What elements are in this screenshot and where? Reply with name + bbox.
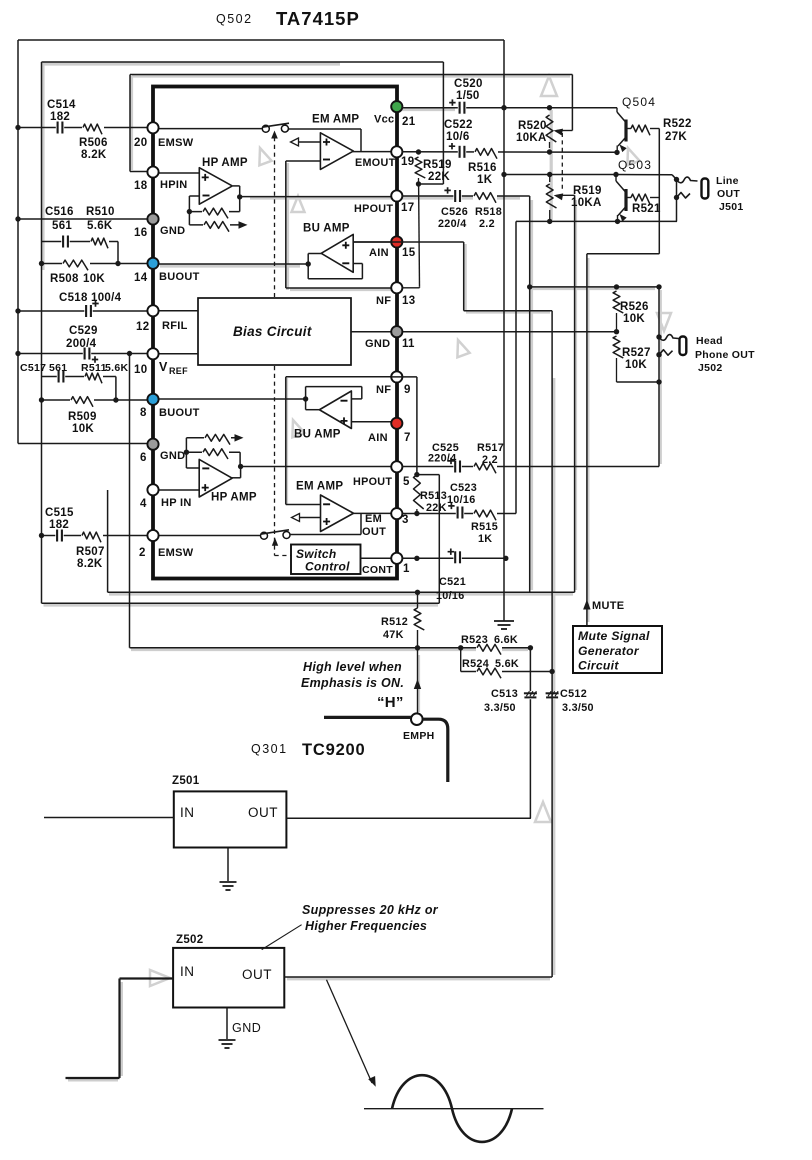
resistor HP-A feedback [203, 208, 228, 218]
pin 21 Vcc [391, 101, 402, 112]
svg-text:C523: C523 [450, 482, 477, 494]
wire BU output stub [308, 253, 321, 255]
wire pin15 AIN line [353, 241, 464, 243]
svg-text:EM: EM [365, 513, 382, 525]
junction jack feed [656, 284, 661, 289]
svg-text:10KA: 10KA [516, 132, 547, 144]
wire EM AMP output to pin19 [353, 151, 391, 153]
wire pin3 EM OUT line [402, 513, 516, 515]
pin 12 RFIL [147, 305, 158, 316]
wire pin14 line [42, 263, 148, 265]
junction R519 foot [416, 181, 421, 186]
svg-text:2: 2 [139, 547, 146, 559]
svg-text:GND: GND [232, 1021, 261, 1035]
resistor HP-B gnd-ref [205, 434, 230, 444]
svg-text:5.6K: 5.6K [105, 362, 128, 374]
svg-text:11: 11 [402, 338, 415, 350]
svg-text:10/16: 10/16 [436, 590, 465, 602]
junction R512 top [415, 590, 420, 595]
junction R524 right [549, 669, 554, 674]
resistor R511 [85, 373, 102, 383]
wire Q503 collector line [504, 174, 616, 176]
svg-text:18: 18 [134, 180, 148, 192]
svg-text:10/6: 10/6 [446, 131, 470, 143]
wire J501 ring drop [676, 180, 678, 222]
wire pin2 line [42, 535, 148, 537]
wire feedback riser [239, 197, 241, 212]
pin 2 EMSW [147, 530, 158, 541]
wire net-B bottom horizontal [42, 602, 440, 604]
svg-text:Q502: Q502 [216, 12, 253, 26]
svg-text:BUOUT: BUOUT [159, 271, 200, 283]
wire R519 foot to pin13 [418, 184, 421, 287]
svg-text:6: 6 [140, 452, 147, 464]
svg-text:CONT: CONT [362, 564, 393, 576]
resistor R516 [475, 149, 497, 159]
capacitor C514 [58, 122, 63, 134]
svg-text:10KA: 10KA [571, 197, 602, 209]
wire pointer to Z502 [262, 925, 302, 950]
svg-text:Generator: Generator [578, 644, 640, 658]
wire AIN step across [464, 310, 552, 312]
svg-text:GND: GND [160, 450, 185, 462]
wire pin20 to switch [158, 128, 262, 130]
svg-text:10K: 10K [623, 313, 645, 325]
resistor R506 [83, 124, 102, 134]
wire gnd-ref line lower [186, 437, 236, 439]
svg-text:182: 182 [49, 519, 69, 531]
pin 16 GND [147, 213, 158, 224]
svg-text:Phone OUT: Phone OUT [695, 349, 755, 361]
capacitor C529 [85, 348, 99, 363]
svg-text:EMSW: EMSW [158, 137, 194, 149]
svg-text:100/4: 100/4 [91, 292, 122, 304]
svg-text:C520: C520 [454, 78, 483, 90]
svg-text:17: 17 [401, 202, 414, 214]
junction BUOUT node [306, 261, 311, 266]
svg-text:R527: R527 [622, 347, 651, 359]
wire under-IC rail y592 [108, 591, 575, 593]
svg-text:HPIN: HPIN [160, 179, 187, 191]
wire HP- drop [188, 196, 190, 212]
svg-text:22K: 22K [426, 502, 447, 514]
svg-text:Circuit: Circuit [578, 659, 619, 673]
sine curve [392, 1075, 512, 1142]
svg-text:OUT: OUT [717, 188, 740, 200]
transistor Q503 base bar [624, 189, 627, 211]
svg-text:C529: C529 [69, 325, 98, 337]
wire volume feed lower [551, 691, 553, 978]
svg-text:Q503: Q503 [618, 158, 652, 172]
wire pin3 riser x516 [515, 221, 517, 513]
junction on y648 rail [415, 645, 420, 650]
capacitor C515 [57, 530, 62, 542]
wire BU-B output drop [305, 399, 307, 410]
wire EMPH riser [417, 630, 419, 714]
pin 4 HP IN [147, 484, 158, 495]
svg-text:EMSW: EMSW [158, 547, 194, 559]
svg-text:1/50: 1/50 [456, 90, 480, 102]
junction Q503 emitter on mute line [615, 219, 620, 224]
jack J502 tip contact [659, 335, 679, 341]
junction Vcc R520 [547, 105, 552, 110]
wire net-B right drop to R519 foot [442, 62, 444, 184]
svg-text:R509: R509 [68, 411, 97, 423]
wire stub to R513 node [417, 474, 439, 476]
pin 20 EMSW [147, 122, 158, 133]
resistor R510 [91, 238, 108, 248]
svg-text:J502: J502 [698, 362, 723, 374]
svg-text:Line: Line [716, 175, 739, 187]
arrowhead on dashed link lower [272, 538, 278, 546]
transistor Q504 collector [617, 112, 626, 123]
svg-text:7: 7 [404, 432, 411, 444]
junction R523 left [458, 645, 463, 650]
wire EM-B- from NF rail [286, 504, 321, 506]
wire pin18 to HP+ [158, 172, 199, 174]
svg-text:R519: R519 [573, 185, 602, 197]
capacitor C521 [448, 549, 460, 564]
svg-text:HP AMP: HP AMP [202, 157, 248, 169]
svg-text:8.2K: 8.2K [81, 149, 107, 161]
arrowhead to sine [368, 1076, 376, 1087]
potentiometer R519 10KA [546, 184, 556, 208]
wire BU- drop [361, 264, 363, 279]
jack J501 tip contact [677, 177, 698, 183]
wire NF rail vertical lower [285, 377, 287, 505]
svg-text:19: 19 [401, 156, 414, 168]
svg-text:15: 15 [402, 247, 416, 259]
regulator Z502 [173, 948, 284, 1008]
pin 7 AIN [391, 418, 402, 429]
op-amp U-EM-B lower [321, 495, 354, 532]
node EMPH [411, 713, 423, 725]
svg-text:C514: C514 [47, 99, 76, 111]
arrowhead MUTE [583, 600, 591, 610]
svg-text:R506: R506 [79, 137, 108, 149]
wire pin9 NF rail top [286, 376, 391, 378]
wire HP-B feedback [186, 451, 240, 453]
svg-text:10K: 10K [83, 273, 105, 285]
arrowhead Q503 emitter [620, 214, 627, 222]
junction R519-22K top [416, 149, 421, 154]
wire Z501 output to C513 [286, 817, 531, 819]
junction R520 bottom [547, 149, 552, 154]
svg-text:Higher Frequencies: Higher Frequencies [305, 919, 427, 933]
wire net-A right vertical to ground [503, 40, 505, 621]
svg-text:R526: R526 [620, 301, 649, 313]
wire R524 branch drop [460, 648, 462, 672]
svg-text:R512: R512 [381, 616, 408, 628]
wire BU-B- riser [361, 387, 363, 399]
wire Z502 gnd stub [226, 1008, 228, 1040]
op-amp U-HP-A upper [199, 168, 232, 205]
open arrow EM-B+ source [292, 514, 300, 522]
resistor R527 [613, 336, 623, 358]
transistor Q504 base bar [624, 120, 627, 142]
wire H bus right drop [423, 719, 448, 782]
svg-text:GND: GND [160, 225, 185, 237]
arrowhead gnd-ref lower [235, 434, 244, 442]
svg-text:NF: NF [376, 295, 391, 307]
wire HP-B- input [186, 467, 199, 469]
resistor R512 47K [414, 608, 424, 630]
op-amp U-EM-A upper [320, 133, 353, 170]
wire arrow to sine wave [327, 980, 373, 1083]
capacitor C517 [59, 371, 64, 383]
svg-text:1K: 1K [477, 174, 493, 186]
wire HP output stub [233, 185, 240, 187]
wire volume feed vertical [551, 311, 553, 691]
svg-text:14: 14 [134, 272, 148, 284]
svg-text:22K: 22K [428, 171, 450, 183]
wire BU-B feedback top [306, 386, 362, 388]
junction HPOUT-B node [238, 464, 243, 469]
svg-text:47K: 47K [383, 629, 404, 641]
wire C516 branch [42, 241, 119, 243]
svg-text:C512: C512 [560, 688, 587, 700]
wire to bias arrow resistor [188, 212, 190, 225]
svg-text:16: 16 [134, 227, 147, 239]
arrowhead R519 wiper [554, 193, 564, 200]
svg-text:HP IN: HP IN [161, 497, 192, 509]
wire AIN to BU+ [353, 241, 391, 243]
svg-text:R508: R508 [50, 273, 79, 285]
wire feedback drop [239, 452, 241, 466]
switch S2 lever [261, 530, 290, 534]
wire mute return horizontal [587, 253, 659, 255]
wire pin20 line [18, 127, 148, 129]
resistor R517 [474, 463, 496, 473]
resistor R507 [82, 532, 101, 542]
svg-text:182: 182 [50, 111, 70, 123]
wire net-C top [130, 74, 572, 76]
capacitor C523 [448, 503, 462, 519]
wire pin10 to bias [158, 353, 198, 355]
svg-text:10: 10 [134, 364, 147, 376]
jack J502 ring contact [659, 350, 673, 356]
wire BU-B feedback left [305, 387, 307, 399]
resistor R518 [474, 193, 496, 203]
wire EM-B output to pin3 [352, 512, 391, 514]
pin 1 CONT [391, 553, 402, 564]
wire net-C drop to R520 wiper [571, 75, 573, 131]
svg-text:HPOUT: HPOUT [353, 476, 392, 488]
pin 19 EMOUT [391, 146, 402, 157]
wire Vcc line [402, 107, 617, 109]
pin 9 NF [391, 371, 402, 382]
wire BU-B output stub [306, 409, 320, 411]
svg-text:AIN: AIN [369, 247, 389, 259]
arrowhead Q504 emitter [620, 145, 627, 153]
svg-text:C515: C515 [45, 507, 74, 519]
wire bottom-left riser [118, 979, 120, 1079]
wire C513 column [529, 648, 531, 819]
switch S1 lever [262, 123, 289, 127]
arrowhead gnd-ref upper [239, 221, 248, 229]
resistor HP-A gnd-ref [204, 222, 229, 232]
wire net-A top [18, 39, 504, 41]
wire pin17 line [402, 195, 530, 197]
svg-text:12: 12 [136, 321, 149, 333]
wire pin10 line [17, 353, 148, 355]
wire R527 bottom to jack [617, 381, 660, 383]
svg-text:6.6K: 6.6K [494, 634, 518, 646]
junction BUOUT-B node [303, 396, 308, 401]
svg-text:C513: C513 [491, 688, 518, 700]
op-amp U-BU-B lower [319, 391, 351, 429]
pin 18 HPIN [147, 166, 158, 177]
wire R519 wiper drop rail [574, 195, 576, 592]
svg-text:TC9200: TC9200 [302, 741, 366, 759]
svg-text:OUT: OUT [248, 805, 278, 820]
pin 8 BUOUT [147, 394, 158, 405]
wire pin17 drop rail [529, 196, 531, 592]
junction R523 right [528, 645, 533, 650]
arrowhead R520 wiper [554, 129, 564, 136]
svg-text:Head: Head [696, 335, 723, 347]
wire HP- input [189, 195, 199, 197]
wire switch control to pin1 [361, 557, 392, 559]
svg-text:5.6K: 5.6K [87, 220, 113, 232]
svg-text:220/4: 220/4 [428, 453, 457, 465]
svg-text:GND: GND [365, 338, 390, 350]
resistor R526 [613, 291, 623, 313]
svg-text:3.3/50: 3.3/50 [562, 702, 594, 714]
junction VREF rail [127, 351, 132, 356]
dashed link to switch control box [275, 555, 292, 557]
svg-text:R521: R521 [632, 203, 661, 215]
regulator Z501 [174, 791, 287, 847]
pin 13 NF [391, 282, 402, 293]
svg-text:HPOUT: HPOUT [354, 203, 393, 215]
wire pin4 to HP-B+ [158, 489, 199, 491]
wire C517 branch [42, 376, 116, 378]
svg-text:IN: IN [180, 964, 195, 979]
wire EMOUT line [402, 151, 617, 153]
svg-text:R515: R515 [471, 521, 498, 533]
wire net-A left vertical [17, 40, 19, 444]
svg-text:2.2: 2.2 [482, 454, 498, 466]
svg-text:Suppresses 20 kHz or: Suppresses 20 kHz or [302, 903, 439, 917]
capacitor C520 [449, 99, 464, 113]
svg-text:C517: C517 [20, 362, 46, 374]
pin 5 HPOUT [391, 461, 402, 472]
resistor R521 [631, 194, 650, 204]
wire net-B left vertical [41, 62, 43, 603]
svg-text:10K: 10K [72, 423, 94, 435]
wire riser to pin3 line [360, 513, 362, 534]
wire headphone feed [530, 286, 659, 288]
svg-text:R511: R511 [81, 362, 107, 374]
svg-text:J501: J501 [719, 201, 744, 213]
wire to gnd-ref resistor lower [185, 438, 187, 452]
svg-text:V: V [159, 360, 168, 374]
wire Z501 gnd stub [227, 848, 229, 882]
wire pin14 BUOUT internal [158, 263, 308, 265]
svg-text:Z502: Z502 [176, 934, 203, 946]
wire HP-B- riser [185, 452, 187, 468]
svg-text:C518: C518 [59, 292, 88, 304]
wire pin2 to switch lower [158, 535, 261, 537]
wire BU- stub [353, 263, 362, 265]
wire NF rail to pin13 [286, 287, 391, 289]
ground G1 [494, 621, 514, 629]
resistor R508 [63, 260, 88, 270]
svg-text:NF: NF [376, 384, 391, 396]
wire EM-B+ input [298, 517, 321, 519]
wire pin4 loop left riser [107, 490, 109, 592]
wire pin12 line [17, 310, 148, 312]
svg-text:R523: R523 [461, 634, 488, 646]
wire jog at R519 foot [419, 183, 444, 185]
svg-text:R516: R516 [468, 162, 497, 174]
wire pin8 line [42, 399, 148, 401]
svg-text:Mute Signal: Mute Signal [578, 629, 650, 643]
svg-text:R510: R510 [86, 206, 115, 218]
resistor HP-B feedback [203, 449, 228, 459]
wire BU feedback left [307, 264, 309, 279]
svg-text:C526: C526 [441, 206, 468, 218]
svg-text:27K: 27K [665, 131, 687, 143]
resistor R524 [477, 668, 501, 678]
transistor Q504 emitter [618, 137, 626, 146]
svg-text:10/16: 10/16 [447, 494, 476, 506]
svg-text:R524: R524 [462, 658, 489, 670]
mute signal generator circuit box [573, 626, 662, 673]
svg-text:5: 5 [403, 476, 410, 488]
wire pin1 CONT line [402, 557, 506, 559]
wire HP output drop [239, 186, 241, 197]
svg-text:MUTE: MUTE [592, 600, 624, 612]
wire Z502 output [284, 976, 552, 978]
svg-text:R507: R507 [76, 546, 105, 558]
wire VREF drop rail [129, 354, 131, 648]
svg-text:RFIL: RFIL [162, 320, 188, 332]
svg-text:Control: Control [305, 560, 350, 574]
svg-text:EM AMP: EM AMP [296, 481, 343, 493]
wire pin16 GND line [17, 218, 148, 220]
wire branch riser [117, 242, 119, 264]
pin 14 BUOUT [147, 258, 158, 269]
wire Q503 collector hook [615, 175, 617, 182]
wire BU output drop [307, 254, 309, 265]
svg-text:8: 8 [140, 407, 147, 419]
capacitor C516 [63, 236, 68, 248]
svg-text:Q301: Q301 [251, 742, 288, 756]
svg-text:Emphasis is ON.: Emphasis is ON. [301, 676, 404, 690]
wire pin8 BUOUT internal [158, 398, 306, 400]
svg-text:220/4: 220/4 [438, 218, 467, 230]
svg-text:8.2K: 8.2K [77, 558, 103, 570]
svg-text:HP AMP: HP AMP [211, 492, 257, 504]
svg-text:Bias Circuit: Bias Circuit [233, 324, 312, 339]
wire R512 top stub [417, 592, 419, 608]
potentiometer R520 10KA [546, 115, 556, 142]
svg-text:BUOUT: BUOUT [159, 407, 200, 419]
wire pin9 jog [391, 376, 417, 378]
wire HPOUT to pin17 [240, 196, 391, 198]
IC U Q502 TA7415P body [153, 87, 397, 579]
open arrow EM+ source [291, 138, 299, 146]
arrowhead EMPH high [414, 679, 421, 689]
svg-text:EMPH: EMPH [403, 730, 435, 742]
wire BU feedback bottom [308, 278, 362, 280]
wire pin12 to bias [158, 310, 198, 312]
wire net-B top [42, 61, 444, 63]
transistor Q503 collector [616, 181, 626, 193]
wire BU-B+ to pin7 [351, 421, 391, 423]
